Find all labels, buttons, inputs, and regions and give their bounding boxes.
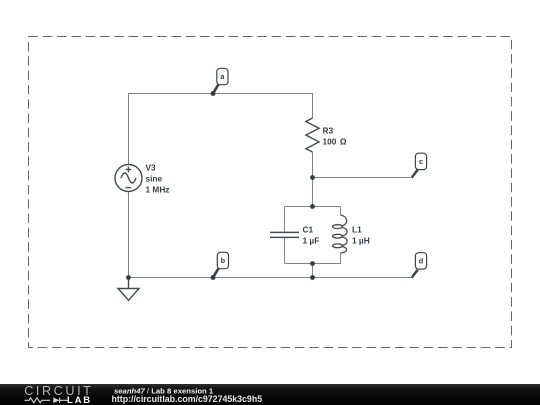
junction: LC to bottom rail	[310, 275, 315, 280]
wire L1 top stub	[340, 207, 342, 216]
wire LC bottom rail	[285, 263, 341, 265]
ground	[118, 278, 139, 301]
node c flag	[411, 153, 427, 178]
svg-text:LAB: LAB	[67, 395, 92, 405]
junction: node b tap	[211, 275, 216, 280]
junction: LC bottom tap	[310, 261, 315, 266]
junction: node a tap	[211, 91, 216, 96]
CircuitLab logo resistor-diode glyph	[25, 398, 68, 403]
svg-text:R3: R3	[323, 126, 334, 136]
wire LC top rail	[285, 206, 341, 208]
wire R3 bottom to LC tank top	[312, 152, 314, 207]
wire C1 bottom stub	[284, 238, 286, 264]
capacitor C1	[270, 232, 299, 237]
L1 value label	[352, 225, 370, 246]
svg-text:100 Ω: 100 Ω	[323, 137, 347, 147]
C1 value label	[303, 225, 320, 246]
junction: LC top tap	[310, 204, 315, 209]
svg-text:d: d	[419, 257, 423, 266]
svg-text:http://circuitlab.com/c972745k: http://circuitlab.com/c972745k3c9h5	[112, 394, 263, 404]
svg-text:b: b	[221, 256, 226, 265]
svg-text:sine: sine	[146, 174, 163, 184]
wire bottom rail: ground junction to node d	[128, 277, 412, 279]
wire C1 top stub	[284, 207, 286, 232]
node a flag	[212, 68, 228, 94]
svg-text:1 MHz: 1 MHz	[146, 185, 170, 195]
inductor L1	[333, 215, 348, 253]
svg-text:1 µH: 1 µH	[352, 236, 370, 246]
wire V3 bottom to ground junction	[128, 192, 130, 278]
svg-text:L1: L1	[352, 225, 362, 235]
wire R3 top stub	[312, 93, 314, 118]
svg-text:1 µF: 1 µF	[303, 236, 320, 246]
svg-text:V3: V3	[146, 163, 157, 173]
svg-text:c: c	[419, 157, 423, 166]
junction: node c tap below R3	[310, 175, 315, 180]
wire left vertical: top corner down to V3 top	[128, 93, 130, 165]
node b flag	[212, 252, 229, 278]
voltage source V3	[115, 165, 142, 192]
V3 value label	[146, 163, 170, 195]
svg-text:C1: C1	[303, 225, 314, 235]
junction: ground	[126, 275, 131, 280]
R3 value label	[323, 126, 347, 147]
wire LC bottom tap to bottom rail	[312, 264, 314, 278]
schematic boundary (dashed frame)	[29, 37, 512, 348]
wire node c branch	[313, 177, 412, 179]
wire top: node a rail from source to R3	[128, 93, 313, 95]
resistor R3	[306, 118, 319, 152]
wire L1 bottom stub	[340, 253, 342, 264]
node d flag	[411, 253, 427, 279]
